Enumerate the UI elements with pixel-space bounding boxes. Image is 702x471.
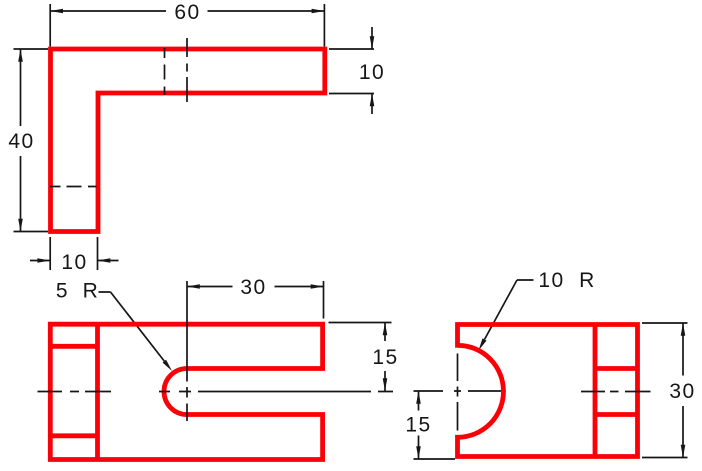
dim 10 right arrow top: [370, 36, 375, 49]
dim 15 side-view dimension line: [418, 391, 420, 459]
svg-text:40: 40: [8, 130, 34, 153]
centerline side-view vertical: [457, 354, 459, 431]
dim 30 top-view arrow left: [187, 284, 200, 289]
dim 30 top-view extension line right: [323, 281, 325, 319]
dim 60 extension line right: [323, 4, 325, 47]
centerline side-view horizontal left: [414, 390, 502, 392]
top view inner horizontal line upper: [50, 344, 97, 349]
dim 30 side-view dimension line: [682, 323, 684, 458]
dim 40 extension line bottom: [14, 231, 49, 233]
svg-text:10: 10: [359, 61, 385, 84]
top view inner vertical line: [95, 324, 100, 459]
dim 10 right extension line bottom: [329, 93, 374, 95]
centerline top-view horizontal slot part: [159, 391, 393, 393]
dim 30 top-view dimension line: [187, 286, 324, 288]
svg-text:30: 30: [240, 276, 266, 299]
dim 15 top-view arrow up: [383, 323, 388, 336]
svg-text:10: 10: [538, 269, 564, 292]
svg-text:R: R: [579, 269, 596, 292]
dim 10 right dimension line above: [371, 27, 373, 49]
dim 30 side-view arrow down: [681, 445, 686, 458]
leader 10R arrowhead: [479, 338, 487, 350]
hidden line front-view slot end: [164, 48, 166, 95]
centerline side-view horizontal right: [581, 391, 651, 393]
top view inner horizontal line lower: [50, 433, 97, 438]
side view outline with notch: [458, 325, 638, 457]
centerline top-view vertical / dim 30 extension: [186, 281, 188, 421]
dim 10 right arrow bottom: [370, 94, 375, 107]
leader 5R line: [99, 292, 165, 361]
leader 10R line: [485, 280, 534, 340]
side view inner vertical line: [593, 325, 598, 457]
dim 15 top-view dimension line: [384, 323, 386, 392]
centerline front-view vertical: [186, 38, 188, 102]
dim 10 bottom arrow left: [37, 258, 50, 263]
dim 60 arrow right: [312, 9, 325, 14]
dim 60 extension line left: [49, 4, 51, 47]
dim 15 side-view arrow down: [416, 446, 421, 459]
dim 40 extension line top: [14, 48, 49, 50]
svg-text:15: 15: [372, 346, 398, 369]
dim 10 right dimension line below: [371, 94, 373, 115]
svg-text:15: 15: [405, 414, 431, 437]
dim 30 side-view arrow up: [681, 323, 686, 336]
dim 15 side-view arrow up: [416, 391, 421, 404]
dim 40 dimension line: [20, 49, 22, 232]
leader 5R arrowhead: [163, 360, 173, 371]
top view outline with slot: [50, 324, 322, 459]
dim 10 bottom dimension line left: [30, 260, 50, 262]
dim 30 side-view extension line bottom: [642, 457, 688, 459]
dim 10 bottom extension line left: [49, 237, 51, 270]
dim 40 arrow bottom: [18, 219, 23, 232]
dim 30 top-view arrow right: [311, 284, 324, 289]
svg-text:5: 5: [56, 280, 69, 303]
svg-text:R: R: [83, 280, 100, 303]
centerline top-view horizontal left part: [38, 391, 112, 393]
dim 10 bottom arrow right: [98, 258, 111, 263]
dim 10 right extension line top: [329, 48, 374, 50]
dim 60 arrow left: [50, 9, 63, 14]
svg-text:10: 10: [61, 251, 87, 274]
dim 15 side-view extension line bottom: [414, 458, 456, 460]
dim 10 bottom dimension line right: [98, 260, 119, 262]
dim 10 bottom extension line right: [97, 237, 99, 270]
svg-text:30: 30: [669, 380, 695, 403]
dim 60 dimension line: [50, 10, 324, 12]
dim 15 top-view arrow down: [383, 378, 388, 391]
dim 40 arrow top: [18, 49, 23, 62]
dim 30 side-view extension line top: [642, 322, 688, 324]
side view inner horizontal line lower: [595, 412, 638, 417]
dim 15 top-view extension line top: [329, 322, 392, 324]
hidden line front-view leg: [50, 186, 97, 188]
side view inner horizontal line upper: [595, 366, 638, 371]
front view L-shape outline: [51, 49, 325, 232]
svg-text:60: 60: [174, 1, 200, 24]
